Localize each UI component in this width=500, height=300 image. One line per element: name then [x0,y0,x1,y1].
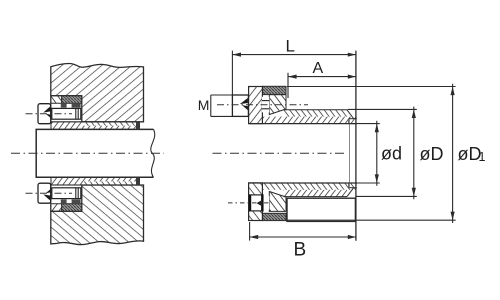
bore line lower [249,182,357,184]
cap screw lower (right view, in counterbore) [249,195,263,211]
pressure ring outside view (lower half) [287,198,355,221]
dimension A [288,73,356,98]
dimension diameter D [348,107,417,200]
screw section dense block upper [62,96,82,104]
dimension diameter D1 [287,84,456,223]
svg-text:L: L [286,37,295,56]
extension line right (common L/A/B) [355,51,357,241]
screw section dense block lower (right view) [263,213,286,220]
svg-text:M: M [198,97,210,113]
screw axis lower (right) [228,202,272,204]
nut ring edges lower [61,199,67,203]
dimension B [250,222,356,241]
M dimension bracket [211,95,233,116]
sleeve band lower (herringbone) [51,178,140,186]
screw hole upper (right view) [262,97,269,113]
cap screw upper (right view, side) [232,95,248,116]
svg-text:ød: ød [381,144,402,164]
centerline (right view) [213,152,347,154]
screw axis upper (right) [217,104,308,106]
svg-text:1: 1 [479,150,486,164]
sleeve inner end edge [349,119,351,187]
svg-text:B: B [294,240,307,261]
nut ring edges [61,104,67,108]
collar lower (left view device) [51,185,82,211]
screw hole upper [52,108,81,119]
shaft centerline (left view) [11,152,164,154]
screw axis upper (left) [26,113,73,115]
hub lower block [51,185,144,245]
screw hole lower [52,188,81,199]
collar wedge lower [51,204,62,212]
taper ring lower [269,192,286,212]
flange lower [249,183,263,221]
flange upper [249,87,263,124]
screw hole lower (right view) [263,196,269,210]
screw axis lower (left) [26,192,73,194]
collar upper (left view device) [51,96,82,122]
svg-text:øD: øD [420,144,444,164]
shaft break line [151,129,155,177]
bore line upper [249,123,357,125]
taper ring upper [269,95,286,115]
outer cone band lower [263,183,357,197]
collar wedge [51,96,62,104]
dimension diameter d [349,121,380,186]
screw section dense block upper (right view) [263,86,286,94]
cap screw upper (left view) [38,104,51,124]
svg-text:A: A [313,60,324,77]
cap screw lower (left view) [38,183,51,203]
hub upper block [51,64,144,122]
screw section dense block lower [62,204,82,212]
dimension L [232,51,356,95]
shaft [36,129,153,177]
outer cone band upper [263,110,357,124]
sleeve band upper (herringbone) [51,122,140,130]
